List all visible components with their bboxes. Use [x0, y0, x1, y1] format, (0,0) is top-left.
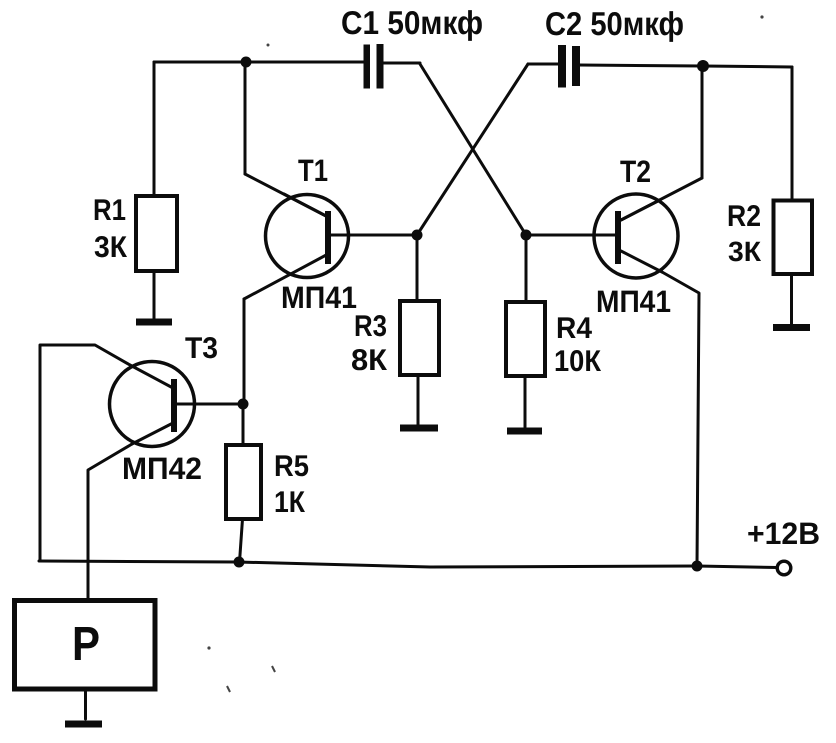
transistor T1: [244, 194, 417, 299]
scan speck: [272, 666, 275, 672]
svg-text:С2 50мкф: С2 50мкф: [545, 5, 684, 42]
label T1: [298, 153, 328, 188]
wire cross-coupling C2 to T1 base: [417, 64, 528, 235]
wire R5 feed: [242, 404, 245, 445]
wire junction to C1: [246, 61, 365, 64]
label T2: [620, 154, 651, 189]
label R3: [354, 310, 387, 343]
svg-text:МП41: МП41: [596, 284, 671, 319]
label C2 50мкф: [545, 5, 684, 42]
terminal +12В: [777, 561, 791, 575]
wire R3 feed: [416, 235, 419, 301]
wire cross-coupling C1 to T2 base: [420, 64, 526, 235]
wire T2 collector vertical: [701, 66, 704, 178]
label МП41 left: [281, 280, 357, 315]
wire R5 to bottom bus: [240, 519, 243, 562]
wire top-left horizontal: [154, 61, 246, 64]
wire T1 collector diagonal: [245, 174, 326, 216]
wire C2 right lead: [579, 65, 703, 66]
resistor R4: [506, 302, 545, 376]
wire T2 collector diagonal: [621, 178, 702, 220]
wire R3 to ground: [417, 375, 420, 426]
svg-text:R2: R2: [727, 200, 761, 233]
resistor R1: [136, 196, 177, 271]
node junction dot T3 base / R5: [238, 399, 249, 410]
label 3К: [94, 231, 128, 264]
wire T3 collector loop to bottom bus: [40, 345, 130, 561]
svg-text:R5: R5: [274, 450, 309, 483]
ground below R3: [400, 425, 438, 432]
node junction dot T2 base / R4: [521, 230, 532, 241]
label R5: [274, 450, 309, 483]
wire bus to +12V terminal: [697, 566, 777, 568]
svg-text:R4: R4: [556, 312, 592, 345]
wire C1 right lead: [383, 62, 420, 65]
label МП41 right: [596, 284, 671, 319]
scan speck: [227, 686, 230, 692]
svg-text:10К: 10К: [554, 345, 602, 378]
node junction dot top-left: [241, 57, 252, 68]
label 8К: [351, 344, 388, 377]
label T3: [185, 332, 218, 365]
svg-text:3К: 3К: [94, 231, 128, 264]
svg-text:R3: R3: [354, 310, 387, 343]
wire relay to ground: [84, 691, 87, 719]
svg-text:R1: R1: [93, 194, 126, 227]
wire T3 emitter down to relay: [88, 444, 132, 600]
ground below R1: [136, 319, 172, 326]
ground below R4: [507, 428, 542, 435]
wire R2 to ground: [790, 274, 793, 326]
label R2: [727, 200, 761, 233]
wire R4 to ground: [524, 376, 527, 427]
wire R1 to ground: [153, 271, 156, 319]
svg-text:С1 50мкф: С1 50мкф: [341, 4, 483, 41]
relay P: [15, 601, 156, 690]
svg-text:МП42: МП42: [122, 451, 202, 486]
wire C2 left lead: [528, 63, 558, 66]
svg-text:Т2: Т2: [620, 154, 651, 189]
resistor R3: [400, 301, 439, 375]
svg-text:+12В: +12В: [747, 516, 820, 551]
label 3К right: [728, 236, 762, 267]
label 10К: [554, 345, 602, 378]
resistor R2: [774, 201, 813, 275]
transistor T3: [110, 362, 244, 447]
label Р: [72, 618, 100, 671]
wire R1 vertical feed: [153, 62, 156, 196]
label C1 50мкф: [341, 4, 483, 41]
transistor T2: [526, 194, 678, 278]
node junction dot T1 base / R3: [412, 230, 423, 241]
svg-text:3К: 3К: [728, 236, 762, 267]
node junction dot T2 emitter on bus: [692, 561, 703, 572]
node junction dot R5 on bus: [234, 557, 245, 568]
svg-text:Т3: Т3: [185, 332, 218, 365]
svg-text:Р: Р: [72, 618, 100, 671]
scan speck: [760, 15, 763, 18]
label МП42: [122, 451, 202, 486]
capacitor C2: [558, 45, 580, 88]
label 1К: [274, 486, 306, 519]
resistor R5: [226, 445, 261, 519]
svg-text:8К: 8К: [351, 344, 388, 377]
scan speck: [267, 44, 270, 47]
wire top-right horizontal: [703, 66, 792, 67]
wire bottom bus: [39, 561, 697, 567]
label R1: [93, 194, 126, 227]
svg-text:МП41: МП41: [281, 280, 357, 315]
wire T1 emitter down to T3 base node: [243, 299, 246, 404]
label +12В: [747, 516, 820, 551]
capacitor C1: [364, 44, 384, 89]
svg-text:Т1: Т1: [298, 153, 328, 188]
wire T2 emitter down to bottom bus: [662, 272, 699, 566]
node junction dot top-right: [697, 60, 709, 72]
label R4: [556, 312, 592, 345]
scan speck: [207, 646, 210, 649]
ground below R2: [773, 324, 810, 331]
svg-text:1К: 1К: [274, 486, 306, 519]
ground below relay: [65, 721, 102, 728]
wire R4 feed: [525, 235, 528, 302]
wire R2 vertical feed: [791, 67, 794, 200]
wire T1 collector vertical: [244, 62, 247, 174]
